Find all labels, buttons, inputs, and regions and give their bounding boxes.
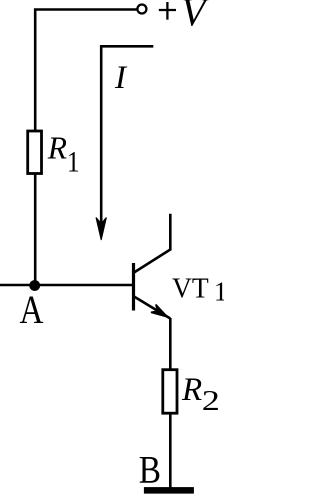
label R1: [47, 131, 80, 179]
svg-text:V: V: [181, 0, 210, 35]
supply terminal (open circle): [137, 5, 146, 14]
svg-text:VT: VT: [172, 273, 209, 305]
svg-text:R: R: [47, 131, 67, 166]
base wire from left edge to transistor: [0, 284, 133, 287]
svg-text:1: 1: [67, 145, 80, 178]
svg-text:I: I: [114, 60, 128, 96]
label +V supply: [159, 0, 210, 35]
svg-text:R: R: [181, 372, 202, 408]
node A junction dot: [29, 280, 40, 291]
wire from R1 up and right to supply terminal: [35, 10, 136, 131]
label R2: [181, 372, 220, 417]
wire R2 to ground: [169, 413, 172, 489]
svg-text:2: 2: [202, 385, 220, 417]
wire emitter to R2: [169, 318, 172, 370]
label VT1: [172, 273, 227, 307]
svg-text:B: B: [139, 447, 161, 491]
wire R1 to node A: [34, 173, 37, 285]
ground: [144, 487, 194, 494]
transistor VT1: [134, 214, 171, 319]
resistor R1: [28, 131, 42, 174]
current arrow I: [96, 46, 153, 240]
svg-text:A: A: [20, 287, 44, 332]
svg-text:1: 1: [214, 277, 224, 307]
resistor R2: [163, 370, 177, 414]
